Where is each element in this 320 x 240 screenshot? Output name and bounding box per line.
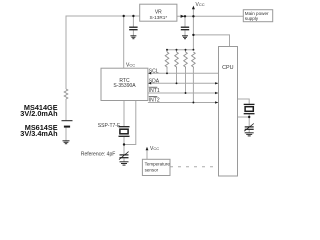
svg-text:S-13R1*: S-13R1* [149,15,167,20]
svg-text:Main power: Main power [245,11,269,16]
svg-text:sensor: sensor [145,167,159,172]
svg-text:SSP-T7-F: SSP-T7-F [98,123,120,129]
svg-text:SCL: SCL [149,68,159,74]
svg-text:Temperature: Temperature [145,161,171,166]
svg-text:3V/3.4mAh: 3V/3.4mAh [20,129,57,138]
svg-text:INT1: INT1 [149,88,160,94]
svg-text:S-35390A: S-35390A [113,83,136,89]
svg-text:Reference: 4pF: Reference: 4pF [81,152,115,158]
svg-text:SDA: SDA [149,78,160,84]
svg-text:INT2: INT2 [149,98,160,104]
svg-text:supply: supply [245,16,259,21]
svg-text:3V/2.0mAh: 3V/2.0mAh [20,109,57,118]
svg-text:CPU: CPU [222,65,233,71]
